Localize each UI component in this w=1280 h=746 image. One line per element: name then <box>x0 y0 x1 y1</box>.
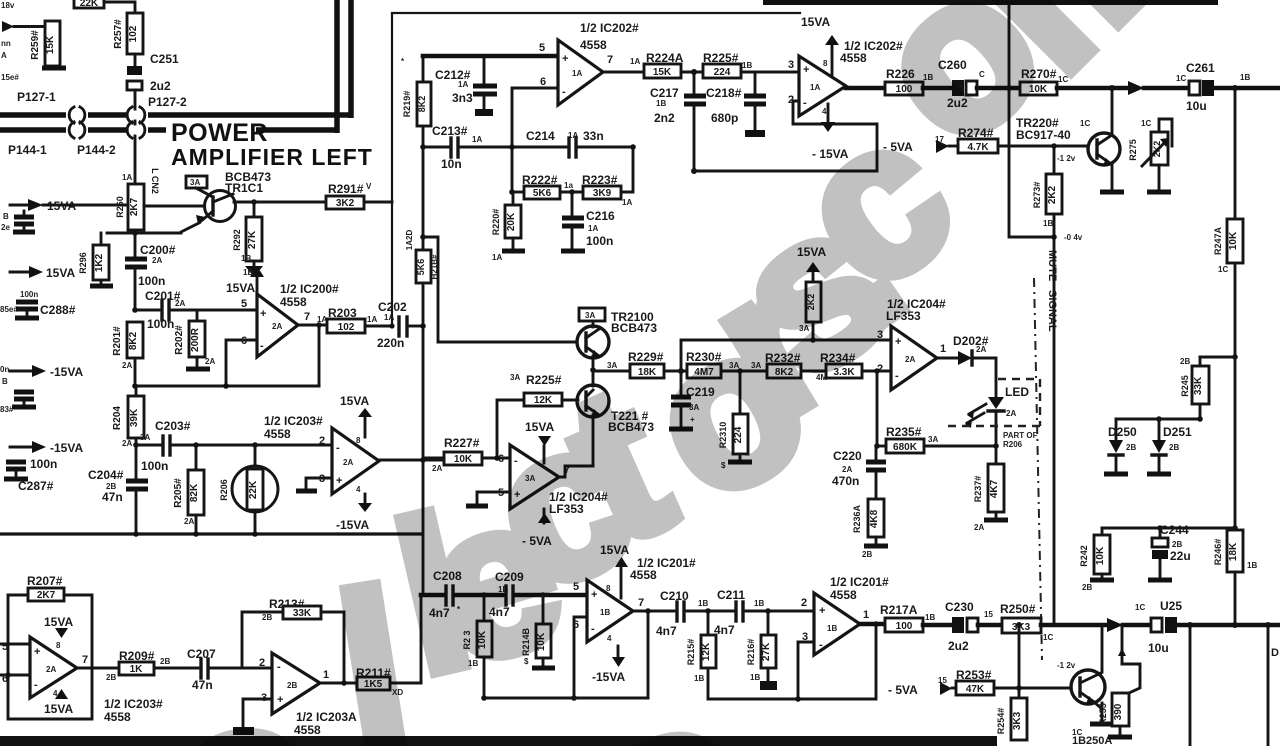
svg-text:-1 2v: -1 2v <box>1057 661 1076 670</box>
op-amp U-IC204a LF353 <box>498 420 608 548</box>
svg-text:D: D <box>1271 647 1279 659</box>
svg-text:680p: 680p <box>711 111 738 125</box>
svg-text:2: 2 <box>801 597 807 609</box>
svg-text:R273#: R273# <box>1032 182 1042 209</box>
wire riser to C208 row <box>420 595 423 683</box>
svg-text:C220: C220 <box>833 449 862 463</box>
svg-text:C217: C217 <box>650 86 679 100</box>
resistor R291 3K2 <box>326 182 392 209</box>
resistor R202 200R <box>174 310 215 369</box>
svg-text:R296: R296 <box>78 252 88 274</box>
svg-text:100n: 100n <box>147 317 174 331</box>
svg-text:R242: R242 <box>1079 545 1089 567</box>
svg-text:2A: 2A <box>46 665 56 674</box>
wire vertical right <box>1267 625 1270 746</box>
svg-text:R201#: R201# <box>112 326 123 356</box>
diode D251 <box>1147 419 1192 474</box>
svg-text:4n7: 4n7 <box>656 624 677 638</box>
svg-text:C213#: C213# <box>432 124 468 138</box>
svg-text:4558: 4558 <box>280 295 307 309</box>
svg-text:1A: 1A <box>810 83 820 92</box>
bottom bar <box>0 736 997 746</box>
resistor R250 3K3 <box>1000 602 1107 642</box>
resistor R203 102 <box>327 306 392 333</box>
power arrow 15VA lower <box>10 271 29 274</box>
svg-text:-0 4v: -0 4v <box>1064 233 1083 242</box>
svg-text:4558: 4558 <box>104 710 131 724</box>
svg-text:1C: 1C <box>1135 603 1145 612</box>
wire C208 row <box>421 593 444 598</box>
svg-text:3K3: 3K3 <box>1012 711 1023 730</box>
capacitor C260 2u2 <box>938 58 1020 110</box>
wire vertical from top bar <box>1009 5 1054 237</box>
svg-text:-: - <box>336 442 340 454</box>
resistor R227 10K <box>423 436 510 473</box>
svg-text:1B: 1B <box>925 613 935 622</box>
wire output <box>298 324 327 327</box>
svg-text:2n2: 2n2 <box>654 111 675 125</box>
svg-text:10u: 10u <box>1148 641 1169 655</box>
resistor R222 5K6 <box>512 173 573 199</box>
resistor R204 39K <box>112 386 144 448</box>
svg-text:2A: 2A <box>184 517 194 526</box>
wire (15VA to base) <box>43 204 128 207</box>
capacitor C202 220n <box>377 300 423 350</box>
svg-text:1: 1 <box>940 343 946 355</box>
capacitor C288 <box>0 290 76 318</box>
capacitor C209 4n7 <box>489 570 587 619</box>
op-amp U-IC203b <box>259 653 357 737</box>
ground pin3 IC203b <box>243 699 272 727</box>
capacitor C251 2u2 <box>127 52 179 93</box>
diode D202 <box>937 334 996 396</box>
svg-text:AMPLIFIER LEFT: AMPLIFIER LEFT <box>171 144 373 170</box>
connector hooks P144 <box>69 107 85 138</box>
resistor R231 224 <box>718 371 752 470</box>
svg-text:1/2 IC203#: 1/2 IC203# <box>104 697 163 711</box>
svg-text:3n3: 3n3 <box>452 91 473 105</box>
svg-text:1B: 1B <box>1240 73 1250 82</box>
svg-text:1C: 1C <box>1176 74 1186 83</box>
svg-text:2B: 2B <box>106 673 116 682</box>
svg-text:1A: 1A <box>630 57 640 66</box>
svg-text:R250#: R250# <box>1000 602 1036 616</box>
transistor TR250 1B250A <box>1057 625 1114 746</box>
arrow on wire <box>1128 81 1144 95</box>
svg-text:- 5VA: - 5VA <box>888 683 918 697</box>
svg-text:2e: 2e <box>1 223 10 232</box>
capacitor C244 22u <box>1148 523 1191 580</box>
svg-text:3A: 3A <box>140 433 150 442</box>
svg-text:2A: 2A <box>205 357 215 366</box>
svg-text:L CN2: L CN2 <box>150 168 160 194</box>
svg-text:POWER: POWER <box>171 119 268 147</box>
svg-text:R246#: R246# <box>1213 539 1223 566</box>
op-amp U-IC203a <box>264 394 379 532</box>
svg-text:8: 8 <box>56 641 61 650</box>
wire row y371 <box>593 370 630 373</box>
wire column x1235 <box>1234 88 1237 219</box>
resistor R211 1K5 <box>356 666 421 697</box>
node <box>494 455 500 461</box>
resistor R230 4M7 <box>686 350 767 378</box>
svg-text:C203#: C203# <box>155 419 191 433</box>
svg-text:4n7: 4n7 <box>714 623 735 637</box>
svg-text:1B: 1B <box>827 624 837 633</box>
wire pin6 <box>512 88 558 192</box>
resistor R242 10K <box>1079 528 1114 592</box>
capacitor C231 10u <box>1135 599 1280 655</box>
wire bus continues <box>422 283 425 595</box>
svg-text:20K: 20K <box>506 212 517 231</box>
resistor (bus series) <box>416 250 439 283</box>
resistor R259 <box>30 21 66 68</box>
wire row y445 <box>133 442 139 448</box>
resistor R234 3.3K <box>816 351 891 382</box>
wire (C251 to CN2) <box>134 90 137 109</box>
svg-text:P127-2: P127-2 <box>148 95 187 109</box>
svg-text:1A: 1A <box>122 173 132 182</box>
svg-text:15: 15 <box>984 610 993 619</box>
svg-text:PART OF: PART OF <box>1003 431 1038 440</box>
capacitor C211 4n7 <box>714 588 816 637</box>
svg-text:C211: C211 <box>717 588 745 602</box>
vertical bus x423 <box>422 147 425 250</box>
svg-text:3K9: 3K9 <box>593 188 612 199</box>
capacitor C230 2u2 <box>945 600 1002 653</box>
svg-text:1B: 1B <box>754 599 764 608</box>
svg-text:2K7: 2K7 <box>129 197 140 216</box>
resistor R224A 15K <box>644 51 703 78</box>
svg-text:R206: R206 <box>1003 440 1023 449</box>
svg-text:22K: 22K <box>248 480 259 499</box>
svg-text:100n: 100n <box>138 274 165 288</box>
node <box>678 368 684 374</box>
svg-text:1a: 1a <box>564 181 573 190</box>
svg-text:R254#: R254# <box>996 708 1006 735</box>
resistor R215 12K <box>686 611 716 699</box>
wire corner to R223 <box>579 147 633 192</box>
svg-text:6: 6 <box>2 673 8 685</box>
svg-text:U25: U25 <box>1160 599 1182 613</box>
svg-text:D251: D251 <box>1163 425 1192 439</box>
svg-text:B: B <box>2 377 8 386</box>
svg-text:2: 2 <box>788 94 794 106</box>
svg-text:R291#: R291# <box>328 182 364 196</box>
wire feedback loop IC201b <box>708 624 876 699</box>
capacitor C201 100n <box>145 289 185 331</box>
svg-text:22u: 22u <box>1170 549 1191 563</box>
svg-text:R217A: R217A <box>880 603 918 617</box>
svg-text:-15VA: -15VA <box>50 441 83 455</box>
svg-text:10K: 10K <box>1095 546 1106 565</box>
svg-text:TR1C1: TR1C1 <box>225 181 263 195</box>
svg-text:47K: 47K <box>966 684 985 695</box>
wire diode row <box>1116 418 1200 421</box>
svg-text:102: 102 <box>128 25 139 42</box>
capacitor C220 470n <box>832 446 886 499</box>
svg-text:MUTE: MUTE <box>1046 250 1058 281</box>
resistor R254 3K3 <box>996 698 1027 740</box>
resistor R220 20K <box>491 189 525 262</box>
right column R245 33K <box>1180 354 1238 528</box>
svg-text:R235#: R235# <box>886 425 922 439</box>
svg-text:4K8: 4K8 <box>869 509 880 528</box>
svg-text:4558: 4558 <box>264 427 291 441</box>
svg-text:R202#: R202# <box>174 325 185 355</box>
svg-text:1A: 1A <box>367 315 377 324</box>
border line thin <box>392 13 800 326</box>
svg-text:R255: R255 <box>1098 703 1108 725</box>
svg-text:C214: C214 <box>526 129 555 143</box>
svg-text:6: 6 <box>540 76 546 88</box>
resistor R226 100 <box>885 67 952 95</box>
power arrow -15VA second <box>4 441 83 493</box>
svg-text:V: V <box>366 182 372 191</box>
svg-text:1B: 1B <box>241 254 251 263</box>
svg-text:R245: R245 <box>1180 375 1190 397</box>
node <box>765 608 771 614</box>
svg-text:2u2: 2u2 <box>948 639 969 653</box>
transistor TR2100 BCB473 <box>577 308 657 370</box>
LED <box>965 385 1029 446</box>
resistor R228 12K <box>497 373 578 458</box>
node <box>569 189 575 195</box>
node (emitter junction) <box>132 230 138 236</box>
ground pin5 IC204a <box>477 492 510 504</box>
power arrow -15VA <box>0 365 83 414</box>
wire feedback loop IC203a <box>8 595 92 719</box>
svg-text:15e#: 15e# <box>1 73 19 82</box>
resistor R214B <box>521 595 555 668</box>
svg-text:7: 7 <box>607 54 613 66</box>
op-amp U-IC200 <box>226 254 339 357</box>
svg-text:83#: 83# <box>0 405 14 414</box>
svg-text:SIGNAL: SIGNAL <box>1046 290 1058 332</box>
wire output <box>77 667 119 670</box>
resistor R207 2K7 <box>27 574 64 601</box>
svg-text:C204#: C204# <box>88 468 124 482</box>
svg-text:4: 4 <box>607 634 612 643</box>
wire bottom loop <box>484 697 648 700</box>
svg-text:3A: 3A <box>585 311 595 320</box>
svg-text:1B: 1B <box>742 61 752 70</box>
svg-text:P144-2: P144-2 <box>77 143 116 157</box>
trimmer R275 <box>1128 119 1172 192</box>
svg-text:3K2: 3K2 <box>336 198 355 209</box>
resistor R201 8K2 <box>112 322 143 386</box>
node <box>691 69 697 75</box>
svg-text:100n: 100n <box>586 234 613 248</box>
resistor R229 18K <box>607 350 687 378</box>
svg-text:10u: 10u <box>1186 99 1207 113</box>
resistor R213 33K feedback <box>242 597 347 686</box>
svg-text:5K6: 5K6 <box>416 259 426 276</box>
svg-text:1/2 IC202#: 1/2 IC202# <box>580 21 639 35</box>
node <box>590 367 596 373</box>
svg-text:R257#: R257# <box>113 19 124 49</box>
svg-text:5K6: 5K6 <box>533 188 552 199</box>
transistor TR220 BC817-40 <box>1016 88 1124 192</box>
wire base TR2100 <box>423 237 577 342</box>
svg-text:C200#: C200# <box>140 243 176 257</box>
node pin2 <box>874 368 880 374</box>
top bar thick <box>763 0 1218 5</box>
capacitor C216 100n <box>561 192 615 251</box>
svg-text:-: - <box>562 86 566 98</box>
bus wire lower <box>0 127 66 133</box>
svg-text:4558: 4558 <box>830 588 857 602</box>
resistor R219 <box>401 57 431 147</box>
svg-text:C218#: C218# <box>706 86 742 100</box>
node <box>1016 622 1022 628</box>
svg-text:3A: 3A <box>190 178 200 187</box>
svg-text:680K: 680K <box>893 442 918 453</box>
wire C213 row <box>423 146 448 149</box>
node <box>1006 85 1012 91</box>
svg-text:1C: 1C <box>1080 119 1090 128</box>
resistor R273 2K2 <box>1032 146 1062 625</box>
svg-text:220n: 220n <box>377 336 404 350</box>
wire pin3 hook <box>798 642 814 699</box>
svg-text:1A: 1A <box>588 224 598 233</box>
svg-text:D250: D250 <box>1108 425 1137 439</box>
svg-text:2B: 2B <box>1169 443 1179 452</box>
capacitor C218 680p <box>706 72 766 137</box>
resistor R209 1K <box>119 649 198 675</box>
svg-text:2A: 2A <box>1006 409 1016 418</box>
capacitor C208 4n7 <box>429 569 503 620</box>
svg-text:1C: 1C <box>1043 633 1053 642</box>
dash-dot line <box>1034 278 1042 660</box>
svg-text:33n: 33n <box>583 129 604 143</box>
node output <box>316 322 322 328</box>
op-amp U-IC201b <box>801 575 889 655</box>
svg-text:100n: 100n <box>30 457 57 471</box>
svg-text:200R: 200R <box>190 327 201 352</box>
svg-text:47n: 47n <box>102 490 123 504</box>
svg-text:10K: 10K <box>1228 231 1239 250</box>
svg-text:-1 2v: -1 2v <box>1057 154 1076 163</box>
resistor R205 82K <box>173 442 204 534</box>
svg-text:3: 3 <box>788 59 794 71</box>
svg-text:15VA: 15VA <box>801 15 830 29</box>
svg-text:18K: 18K <box>1228 542 1239 561</box>
resistor R216 27K <box>746 611 777 690</box>
resistor R235 680K <box>877 425 999 453</box>
capacitor C213 10n <box>432 124 482 171</box>
svg-text:-: - <box>34 679 38 691</box>
resistor R237 4K7 <box>973 446 1008 532</box>
wire pin5 row IC200 <box>135 309 159 312</box>
bus corner verticals <box>334 0 340 133</box>
svg-text:1B: 1B <box>1043 219 1053 228</box>
svg-text:1: 1 <box>863 609 869 621</box>
wire pin5 <box>0 643 30 646</box>
svg-text:10n: 10n <box>441 157 462 171</box>
svg-text:15VA: 15VA <box>46 266 75 280</box>
svg-text:22K: 22K <box>80 0 99 9</box>
wire output IC201a <box>633 610 674 613</box>
svg-text:7: 7 <box>82 654 88 666</box>
svg-text:0n: 0n <box>0 365 9 374</box>
resistor R225 224 <box>703 51 799 78</box>
svg-text:390: 390 <box>1113 703 1124 720</box>
svg-text:2A: 2A <box>976 345 986 354</box>
svg-text:15VA: 15VA <box>226 281 255 295</box>
capacitor C217 2n2 <box>650 72 706 171</box>
capacitor C200 100n <box>125 233 176 310</box>
svg-text:2u2: 2u2 <box>150 79 171 93</box>
svg-text:C288#: C288# <box>40 303 76 317</box>
rail wire y534 <box>0 532 421 535</box>
svg-text:+: + <box>260 308 266 320</box>
svg-text:2B: 2B <box>1172 540 1182 549</box>
bus wire upper <box>0 112 66 118</box>
svg-text:2A: 2A <box>152 256 162 265</box>
wire pin5 row IC202a <box>423 54 558 59</box>
svg-text:1C: 1C <box>1218 265 1228 274</box>
svg-text:2A: 2A <box>122 361 132 370</box>
svg-text:2B: 2B <box>262 613 272 622</box>
wire main output y88 <box>846 86 887 91</box>
svg-text:2A: 2A <box>343 458 353 467</box>
wire <box>104 2 135 13</box>
svg-text:15VA: 15VA <box>44 702 73 716</box>
op-amp U-IC201a <box>573 543 696 684</box>
resistor R233 from 15VA <box>797 245 826 343</box>
transistor TR1C1 BCB473 <box>101 170 271 245</box>
svg-text:C251: C251 <box>150 52 179 66</box>
svg-text:4558: 4558 <box>580 38 607 52</box>
svg-text:27K: 27K <box>761 642 772 661</box>
svg-text:P127-1: P127-1 <box>17 90 56 104</box>
svg-text:8: 8 <box>823 59 828 68</box>
power arrow 15VA <box>10 204 28 207</box>
svg-text:2A: 2A <box>842 465 852 474</box>
svg-text:2K7: 2K7 <box>37 590 56 601</box>
svg-text:5: 5 <box>241 298 247 310</box>
svg-text:R275: R275 <box>1128 139 1138 161</box>
wire output IC202a <box>603 71 644 74</box>
svg-text:2K2: 2K2 <box>1047 185 1058 204</box>
svg-text:2: 2 <box>319 435 325 447</box>
ground pin3 IC203a <box>306 478 332 489</box>
svg-text:15VA: 15VA <box>44 615 73 629</box>
capacitor C207 47n <box>187 647 272 692</box>
svg-text:+: + <box>336 475 342 487</box>
svg-text:2A: 2A <box>175 299 185 308</box>
svg-text:-15VA: -15VA <box>50 365 83 379</box>
svg-text:4558: 4558 <box>840 51 867 65</box>
svg-text:8K2: 8K2 <box>417 96 427 113</box>
svg-text:-: - <box>819 639 823 651</box>
svg-text:R205#: R205# <box>173 478 184 508</box>
wire row y528 <box>1102 527 1235 530</box>
svg-text:1/2 IC203#: 1/2 IC203# <box>264 414 323 428</box>
svg-text:+: + <box>819 605 825 617</box>
wire main bottom row <box>860 622 885 627</box>
svg-text:R259#: R259# <box>30 30 41 60</box>
svg-text:B: B <box>3 212 9 221</box>
svg-text:100: 100 <box>896 621 913 632</box>
svg-text:1A: 1A <box>472 135 482 144</box>
wire pin6 IC201a <box>574 617 587 698</box>
svg-text:1A: 1A <box>458 80 468 89</box>
wire R254 column <box>1018 625 1021 698</box>
svg-text:33K: 33K <box>1193 376 1204 395</box>
svg-text:15K: 15K <box>653 67 672 78</box>
